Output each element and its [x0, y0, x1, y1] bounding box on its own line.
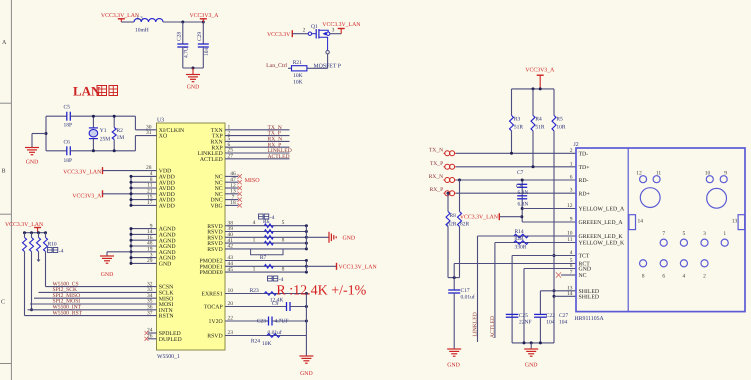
svg-text:51R: 51R: [514, 124, 524, 130]
svg-text:4.7UF: 4.7UF: [275, 318, 289, 324]
svg-text:MISO: MISO: [245, 178, 261, 184]
svg-text:C5: C5: [64, 105, 71, 111]
svg-text:10R: 10R: [556, 124, 566, 130]
svg-text:YELLOW_LED_K: YELLOW_LED_K: [579, 241, 626, 247]
svg-text:-4: -4: [270, 215, 275, 221]
svg-text:RD-: RD-: [579, 178, 589, 184]
svg-text:330R: 330R: [515, 245, 527, 251]
svg-text:2: 2: [703, 274, 706, 280]
svg-text:11: 11: [567, 237, 573, 243]
svg-text:2: 2: [303, 28, 306, 34]
svg-text:51R: 51R: [535, 124, 545, 130]
svg-text:TX_N: TX_N: [429, 147, 443, 153]
svg-text:3: 3: [570, 188, 573, 194]
svg-text:23: 23: [228, 330, 234, 336]
svg-text:7: 7: [570, 270, 573, 276]
svg-text:4.7U: 4.7U: [183, 47, 189, 58]
svg-text:R24: R24: [251, 339, 260, 345]
svg-text:45: 45: [228, 267, 234, 273]
svg-text:13: 13: [732, 219, 738, 225]
svg-text:17: 17: [147, 200, 153, 206]
svg-text:6: 6: [570, 175, 573, 181]
svg-text:104: 104: [546, 319, 555, 325]
svg-text:HR911105A: HR911105A: [575, 316, 605, 322]
svg-text:C8: C8: [516, 184, 523, 190]
svg-text:DUPLED: DUPLED: [159, 337, 182, 343]
svg-text:ACTLED: ACTLED: [490, 316, 496, 338]
svg-text:VCC3V3_A: VCC3V3_A: [525, 68, 555, 74]
svg-text:GND: GND: [579, 267, 592, 273]
svg-text:TX_P: TX_P: [430, 161, 443, 167]
svg-text:8: 8: [282, 267, 285, 273]
svg-text:TOCAP: TOCAP: [204, 305, 223, 311]
svg-text:1: 1: [253, 267, 256, 273]
svg-text:10K: 10K: [293, 73, 303, 79]
svg-text:12: 12: [567, 203, 573, 209]
svg-text:R8: R8: [450, 213, 457, 219]
svg-text:10K: 10K: [293, 80, 303, 86]
svg-text:VCC3.3V_LAN: VCC3.3V_LAN: [339, 265, 378, 271]
svg-text:82R: 82R: [460, 221, 470, 227]
svg-text:NC: NC: [579, 273, 587, 279]
svg-text:C: C: [1, 300, 5, 306]
svg-text:GND: GND: [101, 272, 114, 278]
svg-text:5: 5: [282, 220, 285, 226]
svg-text:C29: C29: [197, 32, 203, 41]
svg-text:RD+: RD+: [579, 191, 590, 197]
svg-text:C23: C23: [257, 318, 266, 324]
svg-text:0.01uf: 0.01uf: [461, 295, 475, 301]
svg-text:27: 27: [228, 154, 234, 160]
svg-text:SHILED: SHILED: [579, 295, 600, 301]
svg-text:11: 11: [656, 171, 662, 177]
svg-text:VCC3V3_A: VCC3V3_A: [72, 193, 102, 199]
svg-text:26: 26: [147, 334, 153, 340]
svg-text:ACTLED: ACTLED: [268, 154, 290, 160]
svg-text:MOSFET P: MOSFET P: [314, 64, 341, 70]
svg-text:14: 14: [567, 291, 573, 297]
svg-text:42: 42: [228, 244, 234, 250]
svg-text:22: 22: [228, 316, 234, 322]
svg-text:R4: R4: [535, 117, 542, 123]
svg-text:RX_P: RX_P: [430, 187, 444, 193]
svg-text:W5500_RST: W5500_RST: [53, 310, 83, 316]
svg-text:R10: R10: [48, 242, 57, 248]
svg-text:1M: 1M: [117, 135, 125, 141]
svg-text:Q1: Q1: [311, 24, 318, 30]
svg-text:82R: 82R: [515, 236, 525, 242]
svg-text:-4: -4: [279, 277, 284, 283]
svg-text:R23: R23: [250, 288, 259, 294]
svg-text:104: 104: [559, 319, 568, 325]
svg-text:VBG: VBG: [210, 204, 222, 210]
svg-text:29: 29: [147, 258, 153, 264]
svg-text:TCT: TCT: [579, 254, 590, 260]
svg-text:10: 10: [705, 171, 711, 177]
svg-text:2: 2: [570, 148, 573, 154]
svg-text:U3: U3: [157, 118, 164, 124]
svg-text:7: 7: [662, 231, 665, 237]
svg-text:PMODE0: PMODE0: [199, 270, 222, 276]
svg-text:1: 1: [570, 161, 573, 167]
svg-text:22NF: 22NF: [519, 319, 532, 325]
svg-text:W5500_1: W5500_1: [157, 354, 180, 360]
svg-text:J2: J2: [574, 142, 579, 148]
svg-text:37: 37: [147, 310, 153, 316]
svg-text:9: 9: [570, 217, 573, 223]
svg-text:Lan_Ctrl: Lan_Ctrl: [266, 62, 287, 69]
svg-text:RSTN: RSTN: [159, 314, 175, 320]
svg-text:R3: R3: [514, 117, 521, 123]
svg-text:C22: C22: [546, 313, 555, 319]
svg-text:14: 14: [638, 219, 644, 225]
svg-text:18: 18: [230, 200, 236, 206]
svg-text:C9: C9: [272, 301, 279, 307]
svg-text:C6: C6: [64, 140, 71, 146]
svg-text:1V2O: 1V2O: [209, 319, 223, 325]
svg-text:ACTLED: ACTLED: [200, 157, 223, 163]
svg-text:GND: GND: [525, 363, 538, 369]
svg-text:C17: C17: [461, 288, 470, 294]
svg-text:8: 8: [570, 263, 573, 269]
svg-text:18P: 18P: [64, 158, 73, 164]
svg-text:GREEEN_LED_K: GREEEN_LED_K: [579, 234, 624, 240]
svg-text:3: 3: [332, 28, 335, 34]
svg-text:6.8N: 6.8N: [518, 190, 529, 196]
svg-text:10: 10: [228, 288, 234, 294]
svg-text:YELLOW_LED_A: YELLOW_LED_A: [579, 207, 626, 213]
svg-text:C25: C25: [519, 313, 528, 319]
svg-text:-4: -4: [59, 248, 64, 254]
svg-text:1: 1: [723, 231, 726, 237]
svg-text:VCC3.3V_LAN: VCC3.3V_LAN: [322, 22, 361, 28]
svg-text:8: 8: [642, 274, 645, 280]
svg-text:R21: R21: [293, 60, 302, 66]
svg-text:LINKLED: LINKLED: [473, 312, 479, 336]
svg-text:4: 4: [253, 220, 256, 226]
svg-text:8: 8: [282, 238, 285, 244]
svg-text:RX_N: RX_N: [429, 174, 444, 180]
svg-text:10mH: 10mH: [135, 28, 149, 34]
svg-text:GND: GND: [187, 85, 200, 91]
svg-text:R2: R2: [117, 128, 124, 134]
svg-text:VCC3.3V: VCC3.3V: [267, 32, 291, 38]
svg-text:VCC3.3V_LAN: VCC3.3V_LAN: [460, 215, 499, 221]
svg-text:C27: C27: [559, 313, 568, 319]
svg-text:12: 12: [636, 171, 642, 177]
svg-text:4: 4: [570, 250, 573, 256]
svg-text:6.8N: 6.8N: [518, 201, 529, 207]
svg-text:R :12.4K +/-1%: R :12.4K +/-1%: [276, 284, 366, 299]
svg-text:C7: C7: [517, 170, 524, 176]
svg-text:5: 5: [683, 231, 686, 237]
svg-text:B: B: [2, 169, 6, 175]
svg-text:9: 9: [724, 171, 727, 177]
svg-text:GND: GND: [447, 363, 460, 369]
svg-text:VCC3.3V_LAN: VCC3.3V_LAN: [63, 170, 102, 176]
svg-text:10: 10: [567, 231, 573, 237]
svg-text:GND: GND: [26, 160, 39, 166]
svg-text:TD-: TD-: [579, 152, 589, 158]
svg-text:82R: 82R: [447, 221, 457, 227]
svg-text:GND: GND: [300, 371, 313, 377]
svg-text:18P: 18P: [64, 123, 73, 129]
svg-text:L3: L3: [137, 15, 143, 21]
svg-text:RSVD: RSVD: [207, 247, 222, 253]
svg-text:Y1: Y1: [100, 128, 107, 134]
svg-text:20: 20: [228, 301, 234, 307]
svg-text:4: 4: [683, 274, 686, 280]
svg-text:GND: GND: [159, 262, 172, 268]
svg-text:GREEEN_LED_A: GREEEN_LED_A: [579, 220, 624, 226]
svg-text:104: 104: [204, 48, 210, 57]
svg-text:10K: 10K: [262, 341, 272, 347]
svg-text:R6: R6: [263, 219, 270, 225]
svg-text:A: A: [2, 40, 7, 46]
svg-text:R14: R14: [515, 229, 524, 235]
svg-text:EXRES1: EXRES1: [201, 292, 222, 298]
svg-text:3: 3: [703, 231, 706, 237]
svg-text:C28: C28: [177, 32, 183, 41]
svg-text:XO: XO: [159, 134, 167, 140]
svg-text:0.01uf: 0.01uf: [268, 330, 282, 336]
svg-text:TD+: TD+: [579, 165, 590, 171]
svg-text:31: 31: [146, 130, 152, 136]
svg-text:25M: 25M: [100, 137, 111, 143]
svg-text:R5: R5: [556, 117, 563, 123]
svg-text:AVDD: AVDD: [159, 204, 175, 210]
svg-text:6: 6: [662, 274, 665, 280]
svg-text:RSVD: RSVD: [207, 334, 222, 340]
svg-text:1: 1: [253, 238, 256, 244]
svg-text:GND: GND: [343, 236, 356, 242]
